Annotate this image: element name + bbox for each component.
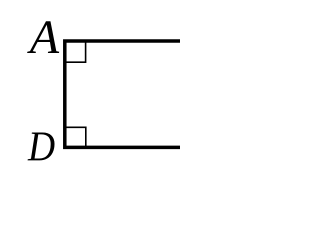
svg-text:D: D — [27, 122, 55, 170]
svg-text:A: A — [27, 11, 60, 64]
